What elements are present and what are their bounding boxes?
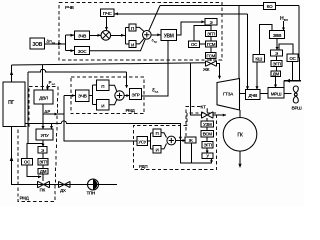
svg-text:ЭГП: ЭГП (207, 31, 215, 36)
wire summer to UVM (151, 33, 161, 36)
turbine GTZA (217, 79, 240, 111)
block UPU (36, 129, 53, 140)
block E1 electric (205, 19, 217, 26)
wire OS2 bottom and KO drop to MRSh (284, 58, 301, 88)
wire multiplier to PI bracket (111, 27, 129, 44)
wire summer diagonal up to feedback line (149, 6, 160, 32)
block OS2 (287, 54, 298, 62)
block P2 (97, 80, 110, 91)
wire ZOS to summer bottom (90, 39, 146, 51)
dashed box RChV (speed governor) (59, 3, 222, 61)
block U amplifier (202, 153, 213, 159)
valve KT (202, 108, 214, 118)
wire E2 output bridge to OS2 (279, 44, 293, 54)
svg-text:ЭЧВ: ЭЧВ (78, 94, 88, 99)
block GSM2 (206, 53, 217, 59)
block P (proportional) (129, 24, 136, 31)
svg-text:П: П (101, 84, 104, 89)
svg-text:И: И (156, 148, 159, 153)
wire junction down to U loop (180, 141, 213, 164)
block UZM (201, 121, 214, 127)
svg-text:ДВЛ: ДВЛ (39, 96, 48, 101)
wire USU to P3 I3 bracket (148, 133, 154, 149)
wires P3 I3 to summer 3 (161, 133, 167, 149)
steam branch down to bypass valve KT (191, 63, 202, 115)
block PG (steam generator) (3, 82, 25, 127)
svg-text:И: И (101, 103, 104, 108)
wires E3-EGP3-DM3-valve chain (42, 153, 44, 181)
block I (integral) (129, 41, 136, 48)
svg-text:И: И (131, 42, 134, 47)
wire PG top riser with up arrow (10, 65, 13, 82)
wire summer2 to EGR (124, 94, 129, 97)
svg-text:ЭГР: ЭГР (132, 93, 140, 98)
wire EChV to P2 I2 bracket (89, 85, 97, 105)
wire vertical to turbine top (238, 6, 240, 79)
wire OS3 bottom loop (27, 165, 42, 178)
block I2 (97, 100, 110, 111)
long pressure line from PG (25, 121, 182, 140)
dashed box RDP (134, 113, 217, 170)
wire UVM to E1 (177, 20, 206, 35)
wires E2-EGP2-DM2 chain (276, 56, 278, 71)
svg-text:ПЧС: ПЧС (103, 11, 113, 16)
wire summer3 to Zh (176, 139, 186, 142)
svg-text:УЗМ: УЗМ (203, 122, 212, 127)
svg-text:ЗВВ: ЗВВ (273, 33, 282, 38)
feedback line to KO (160, 6, 299, 58)
wire PChS down to multiplier (105, 17, 108, 31)
block OS1 (189, 41, 200, 48)
block VSM (201, 131, 214, 138)
wires E1-EGP1-GSM1-GSM2 chain (210, 25, 212, 61)
svg-text:ОС: ОС (289, 56, 296, 61)
svg-text:ВСМ: ВСМ (203, 132, 213, 137)
main steam line from PG to ZhK valve (12, 63, 206, 65)
svg-text:КШ: КШ (255, 57, 262, 62)
svg-text:КО: КО (267, 4, 273, 9)
valve PK (38, 181, 50, 192)
wire DM2 to MRSh (274, 77, 277, 89)
block PChS (101, 9, 115, 17)
wire ZVV to E2 (276, 39, 279, 51)
wire turbine exhaust to GK (239, 110, 242, 118)
multiplier circle (101, 31, 111, 41)
wire UPU to E3 (42, 140, 45, 147)
wire EGR to UVM feedback riser (142, 41, 169, 96)
wires P2 I2 to summer 2 (109, 85, 117, 105)
wire GK bottom drain (238, 151, 241, 168)
svg-text:ЭГП: ЭГП (39, 160, 47, 165)
svg-text:РЧВ: РЧВ (65, 5, 75, 10)
svg-text:РМД: РМД (126, 108, 136, 113)
UVM correction line with hump (28, 69, 127, 72)
wires P and I to summer (136, 27, 144, 44)
summer circle 1 (143, 31, 152, 40)
wire speed feedback down to DChV (246, 14, 249, 90)
svg-text:ПК: ПК (40, 188, 46, 193)
wires valve KT stack chain (206, 118, 209, 153)
dashed box RMD middle (71, 77, 144, 114)
label dP and branch wire (43, 109, 64, 116)
svg-text:УСУ: УСУ (138, 139, 146, 144)
svg-text:УПУ: УПУ (41, 133, 49, 138)
wire correction down to EGR (125, 72, 128, 89)
dP riser and drop (64, 96, 137, 142)
wire valve ZhK to turbine (217, 64, 222, 80)
block P3 (153, 129, 161, 137)
wire valve KT to condenser (213, 114, 226, 117)
block DM3 (38, 169, 48, 175)
block ZOV (30, 38, 45, 49)
wire OS1 bridge to E1 output (194, 26, 211, 45)
block MRSh (268, 88, 284, 99)
block UVM (computer) (161, 30, 177, 41)
svg-text:ОС: ОС (191, 42, 198, 47)
wire KSh down to DChV (256, 62, 259, 90)
block ZOS (75, 47, 90, 55)
wire bridge KSh to ZVV top (259, 24, 272, 54)
valve ZhK (202, 61, 217, 72)
block ZVV (270, 31, 285, 39)
block USU (137, 137, 148, 146)
wire steam line tap to DVL (42, 65, 44, 90)
summer circle 2 (115, 91, 124, 100)
svg-text:П: П (131, 26, 134, 31)
svg-text:ЭГП: ЭГП (272, 61, 280, 66)
block DVL (34, 90, 53, 104)
block EGP2 (271, 61, 282, 67)
wire Zh bottom drop (191, 144, 193, 164)
block EGR (130, 89, 142, 100)
svg-text:ГТЗА: ГТЗА (223, 92, 234, 97)
svg-text:ЗОС: ЗОС (78, 49, 88, 54)
wire DVL down to UPU (42, 104, 45, 129)
svg-text:МРШ: МРШ (271, 91, 282, 96)
block DM2 (271, 71, 281, 77)
svg-text:ВРШ: ВРШ (292, 106, 303, 111)
feed water line (10, 127, 117, 185)
block E3 (38, 147, 47, 154)
svg-text:ЗОВ: ЗОВ (32, 42, 42, 48)
propeller VRSh (292, 86, 303, 111)
svg-text:ДМ: ДМ (40, 169, 47, 174)
svg-text:ГСМ: ГСМ (206, 53, 215, 58)
svg-text:ГСМ: ГСМ (207, 42, 216, 47)
block GSM1 (206, 41, 217, 47)
svg-text:ΔР: ΔР (44, 109, 50, 114)
block ZChV (75, 31, 90, 40)
condenser GK (223, 118, 257, 152)
block EGP4 (202, 142, 213, 149)
block KO (264, 3, 276, 10)
wire ZOV to split (45, 34, 75, 52)
block I3 (153, 146, 161, 154)
svg-text:ОС: ОС (24, 160, 31, 165)
wire turbine shaft to DChV (240, 93, 246, 95)
block EGP1 (206, 31, 217, 37)
dashed box RMD bottom (18, 87, 58, 202)
block DChV (246, 90, 261, 100)
label P_vl with arrow (46, 80, 55, 90)
block Zh (185, 137, 196, 143)
svg-text:П: П (156, 131, 159, 136)
svg-text:ДЧВ: ДЧВ (248, 93, 258, 98)
wire left correction drop to E3 (28, 72, 43, 144)
wire DChV to MRSh (260, 93, 268, 95)
svg-text:ТПН: ТПН (87, 191, 96, 196)
pump TPN (87, 179, 99, 196)
svg-text:КТ: КТ (201, 104, 207, 109)
svg-text:ЭГП: ЭГП (203, 143, 211, 148)
wire OS3 top loop (27, 144, 43, 159)
block KSh (253, 55, 265, 63)
svg-text:УВМ: УВМ (164, 34, 174, 40)
KT sensing dashed line (186, 104, 206, 137)
wire dP to EChV (64, 94, 76, 97)
svg-text:ПГ: ПГ (8, 100, 14, 106)
wire ZChV to multiplier (90, 34, 102, 37)
valve DH (59, 181, 71, 193)
block EChV (76, 90, 90, 102)
svg-text:ЖК: ЖК (202, 67, 210, 72)
wire branch down into UPU right (50, 124, 53, 130)
svg-text:РМД: РМД (20, 196, 30, 201)
block E2 (271, 50, 283, 56)
block EGP3 (38, 159, 48, 166)
wire MRSh to propeller (284, 93, 292, 95)
svg-text:ЗЧВ: ЗЧВ (78, 34, 87, 39)
svg-text:ДМ: ДМ (272, 72, 279, 77)
summer circle 3 (167, 136, 176, 145)
svg-text:РДП: РДП (139, 164, 147, 169)
label N_vl with arrow (280, 16, 288, 31)
block OS3 (22, 159, 33, 166)
speed feedback line to PChS (114, 12, 247, 15)
